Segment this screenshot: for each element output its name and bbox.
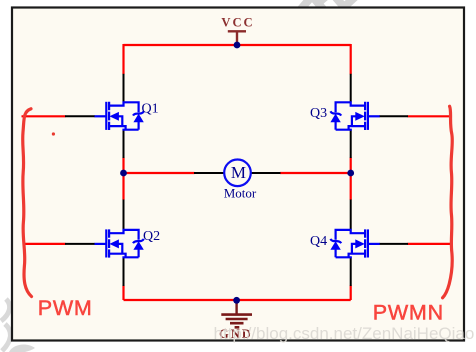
pin Q3 source (black) [350, 130, 352, 158]
wire Q4 source to bottom rail [350, 286, 352, 301]
transistor Q3 (mirrored) [330, 102, 379, 130]
svg-text:Q4: Q4 [310, 234, 327, 249]
svg-text:Q2: Q2 [143, 229, 160, 244]
junction node B (right mid) [347, 170, 354, 177]
wire left top drop [122, 44, 124, 74]
pin Q2 gate (black) [65, 243, 95, 245]
wire top rail VCC [124, 44, 351, 46]
wire PWM to Q2 gate (red) [23, 243, 66, 245]
wire node A to Q2 drain [122, 173, 124, 200]
pin Q4 gate (black) [379, 243, 408, 245]
annotation marker squiggle left (PWM net) [23, 109, 32, 297]
pin Q2 source (black) [123, 257, 125, 286]
pin Q1 drain (black) [123, 74, 125, 102]
pin Q4 drain (black) [350, 200, 352, 230]
wire right top drop [350, 44, 352, 74]
transistor Q1 [95, 102, 144, 130]
annotation marker squiggle right (PWMN net) [443, 106, 453, 297]
svg-text:Motor: Motor [224, 185, 257, 200]
svg-text:http://blog.csdn.net/ZenNaiHeQ: http://blog.csdn.net/ZenNaiHeQiao [214, 324, 475, 343]
svg-text:PWM: PWM [38, 296, 93, 320]
svg-text:Q1: Q1 [142, 101, 159, 116]
wire Q3 source to node B [350, 158, 352, 174]
junction node VCC [234, 42, 241, 49]
pin Q2 drain (black) [123, 200, 125, 230]
wire Q3 gate to PWMN (red) [408, 115, 451, 117]
junction node A (left mid) [120, 170, 127, 177]
pin motor right (black) [251, 172, 281, 174]
annotation marker dot [52, 132, 55, 135]
pin Q3 drain (black) [350, 74, 352, 102]
watermark curl bottom-left [1, 299, 10, 351]
junction node GND [233, 297, 240, 304]
wire node A to motor left [124, 172, 195, 174]
pin Q1 source (black) [123, 130, 125, 158]
svg-text:M: M [231, 163, 246, 182]
wire bottom rail GND [124, 299, 351, 301]
motor M1 circle [224, 160, 251, 187]
wire Q2 source to bottom rail [122, 286, 124, 301]
watermark zigzag top [301, 0, 355, 9]
svg-text:Q3: Q3 [310, 106, 327, 121]
transistor Q4 (mirrored) [330, 229, 379, 257]
wire Q4 gate to PWMN (red) [408, 243, 454, 245]
power VCC symbol [228, 31, 246, 43]
pin Q4 source (black) [350, 257, 352, 286]
svg-text:PWMN: PWMN [373, 300, 444, 324]
pin motor left (black) [194, 172, 224, 174]
transistor Q2 [95, 229, 144, 257]
wire Q1 source to node A [122, 158, 124, 174]
svg-text:VCC: VCC [221, 16, 254, 30]
pin Q3 gate (black) [379, 115, 408, 117]
pin Q1 gate (black) [65, 115, 95, 117]
wire node B to Q4 drain [350, 173, 352, 200]
wire PWM to Q1 gate (red) [22, 115, 66, 117]
wire motor right to node B [280, 172, 351, 174]
ground GND symbol [235, 300, 237, 314]
